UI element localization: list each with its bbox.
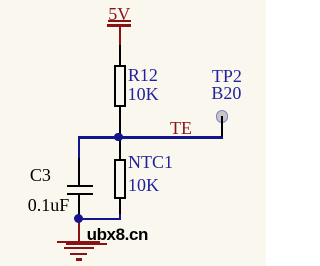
capacitor C3 value 0.1uF — [28, 196, 70, 214]
wire: vertical navy to bottom corner — [119, 214, 121, 220]
wire: pin from R12 to junction — [119, 107, 121, 137]
thermistor NTC1 value 10K — [128, 176, 159, 194]
wire: C3 top lead — [78, 158, 80, 185]
ground bar 1 — [57, 241, 100, 244]
ground bar 4 — [76, 258, 82, 261]
wire: pin from junction to NTC1 — [119, 138, 121, 159]
resistor R12 body — [114, 65, 127, 108]
power +5V bar — [107, 24, 132, 27]
junction node at C3/NTC1 ground net — [74, 214, 83, 223]
test point TP2 label — [212, 67, 242, 85]
thermistor NTC1 designator — [128, 153, 173, 171]
ground stem — [78, 221, 80, 241]
watermark ubx8.cn — [87, 226, 148, 243]
watermark underline — [66, 243, 107, 245]
wire: C3 bottom lead — [78, 195, 80, 218]
capacitor C3 top plate — [67, 185, 93, 188]
test point TP2 pad circle — [216, 110, 229, 123]
power +5V stem — [119, 26, 121, 45]
capacitor C3 designator — [30, 166, 51, 184]
wire: pin from TP2 down to TE net — [221, 116, 223, 137]
resistor R12 designator — [128, 66, 158, 84]
junction node at R12/NTC1/TE — [114, 133, 123, 142]
power +5V text underline — [108, 20, 131, 21]
thermistor NTC1 body — [114, 159, 127, 199]
wire: bottom horizontal navy to C3 junction — [78, 218, 120, 221]
test point TP2 pad name B20 — [211, 84, 241, 102]
wire: navy drop from TE net to C3 — [78, 136, 80, 160]
wire: pin from NTC1 bottom — [119, 199, 121, 217]
ground bar 3 — [70, 253, 87, 256]
wire: pin from power to R12 — [119, 45, 121, 65]
ground bar 2 — [64, 247, 95, 250]
capacitor C3 bottom plate — [67, 193, 93, 196]
resistor R12 value 10K — [128, 85, 159, 103]
net label TE — [170, 119, 192, 137]
wire: horizontal net TE from cap corner to test point — [78, 136, 223, 139]
power +5V label — [108, 5, 130, 23]
